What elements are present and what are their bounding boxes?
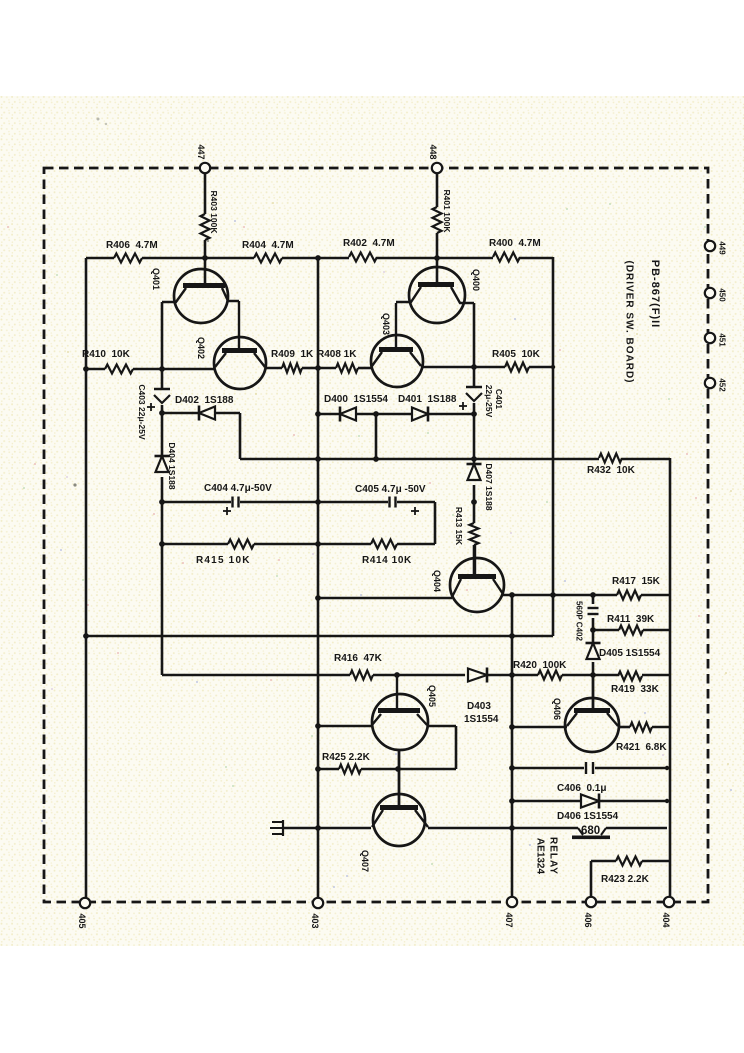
svg-text:R413 15K: R413 15K	[454, 507, 464, 546]
svg-text:1S1554: 1S1554	[464, 714, 499, 725]
svg-text:C401: C401	[494, 389, 504, 410]
resistor R401 100K	[433, 189, 453, 233]
svg-text:Q406: Q406	[552, 698, 562, 720]
svg-text:R421 6.8K: R421 6.8K	[616, 742, 667, 753]
terminal 406	[583, 897, 596, 928]
resistor R411	[607, 614, 655, 635]
wire R408 segment	[318, 367, 372, 370]
transistor Q407	[360, 750, 428, 872]
wire rail x512	[511, 595, 514, 897]
diode D400	[324, 394, 388, 422]
terminal 405	[77, 898, 90, 929]
wire stub x376	[375, 414, 378, 459]
terminal 447	[196, 144, 210, 173]
terminal 449	[705, 241, 727, 255]
wire cap row y502	[162, 502, 435, 544]
terminal 404	[661, 897, 674, 928]
svg-text:R400 4.7M: R400 4.7M	[489, 238, 541, 249]
svg-text:22μ-25V: 22μ-25V	[484, 385, 494, 418]
svg-text:R414 10K: R414 10K	[362, 555, 412, 566]
stray specks	[73, 118, 209, 487]
wire left rail	[85, 258, 88, 898]
resistor R414	[362, 540, 412, 567]
svg-text:Q402: Q402	[196, 337, 206, 359]
svg-text:C405 4.7μ -50V: C405 4.7μ -50V	[355, 484, 426, 495]
diode D404	[155, 442, 178, 490]
resistor R409	[271, 349, 314, 373]
transistor Q404	[432, 545, 504, 612]
svg-text:405: 405	[77, 913, 87, 928]
wire row y769	[318, 768, 456, 771]
junction dots row502	[159, 499, 321, 505]
wire Q404 base-left	[318, 597, 452, 600]
resistor R413	[454, 507, 479, 546]
junction dots row368	[83, 364, 555, 372]
wire row y828	[283, 827, 512, 830]
svg-text:Q405: Q405	[427, 685, 437, 707]
title PB-867	[649, 260, 661, 328]
resistor R406	[106, 240, 158, 263]
wire 447 feed	[204, 173, 207, 284]
svg-text:452: 452	[718, 378, 727, 392]
transistor Q406	[552, 675, 619, 752]
wire Q406 left	[512, 726, 567, 729]
wire x593 chain	[592, 595, 595, 708]
transistor Q403	[371, 303, 423, 387]
transistor Q402	[196, 301, 266, 389]
resistor R420	[513, 660, 567, 680]
svg-text:D401 1S188: D401 1S188	[398, 394, 457, 405]
capacitor C403	[137, 384, 170, 440]
svg-text:560P C402: 560P C402	[575, 601, 584, 641]
svg-text:R425 2.2K: R425 2.2K	[322, 752, 371, 763]
wire x474 chain	[473, 303, 476, 574]
svg-text:R409 1K: R409 1K	[271, 349, 314, 360]
svg-text:(DRIVER SW. BOARD): (DRIVER SW. BOARD)	[624, 261, 635, 384]
wire 448 feed	[436, 173, 439, 283]
junction dots y636	[83, 633, 515, 639]
svg-text:D404 1S188: D404 1S188	[167, 442, 177, 490]
wire diode row R	[318, 413, 474, 416]
wire row y459	[240, 458, 670, 461]
svg-text:R401 100K: R401 100K	[442, 189, 452, 233]
junction dots row544	[159, 541, 321, 547]
diode D405	[586, 643, 661, 659]
svg-text:R420 100K: R420 100K	[513, 660, 567, 671]
junction dot x593	[590, 627, 596, 678]
svg-text:D400 1S1554: D400 1S1554	[324, 394, 388, 405]
diode D406	[557, 794, 619, 823]
svg-text:RELAY: RELAY	[548, 837, 559, 875]
svg-text:449: 449	[718, 241, 727, 255]
svg-text:Q403: Q403	[381, 313, 391, 335]
junction x474 dots	[471, 411, 477, 505]
svg-text:R415 10K: R415 10K	[196, 555, 251, 566]
transistor Q405	[372, 675, 437, 750]
relay label	[535, 837, 559, 875]
transistor Q400	[396, 267, 481, 323]
junction dot q404	[315, 595, 321, 601]
terminal 450	[705, 288, 727, 302]
junction dots relay2	[509, 798, 669, 804]
svg-text:D405 1S1554: D405 1S1554	[599, 648, 661, 659]
wire long row y636	[86, 635, 553, 638]
wire Q404 emitter row	[503, 594, 670, 597]
diode D401	[398, 394, 457, 422]
svg-text:447: 447	[196, 144, 206, 159]
resistor R425	[322, 752, 371, 774]
input mark	[270, 820, 283, 836]
svg-text:406: 406	[583, 912, 593, 927]
junction dots relay1	[509, 765, 669, 771]
svg-text:R408 1K: R408 1K	[317, 349, 357, 360]
junction dot q406	[509, 724, 515, 730]
svg-text:R419 33K: R419 33K	[611, 684, 660, 695]
resistor R402	[343, 238, 395, 262]
wire row y368	[86, 368, 215, 371]
relay coil 680	[512, 825, 667, 839]
wire Q405 left	[318, 725, 372, 728]
resistor R416 47K	[334, 653, 383, 680]
diode D407	[467, 463, 495, 511]
wire Q406 right	[618, 726, 670, 729]
wire R423 row	[591, 861, 670, 897]
capacitor C406	[557, 762, 606, 794]
terminal 451	[705, 333, 727, 347]
svg-text:D403: D403	[467, 701, 491, 712]
wire row y630	[593, 629, 670, 632]
capacitor C404	[204, 483, 272, 515]
wire right rail x553	[552, 257, 555, 636]
diode D402	[175, 395, 234, 421]
svg-text:D407 1S188: D407 1S188	[484, 463, 494, 511]
wire row y675	[162, 674, 670, 677]
junction bus dots	[202, 255, 440, 261]
svg-text:407: 407	[504, 912, 514, 927]
svg-text:Q401: Q401	[151, 268, 161, 290]
junction dot rowL	[159, 410, 165, 416]
resistor R423	[601, 857, 650, 886]
wire diode row L	[162, 413, 240, 459]
resistor R415	[196, 540, 254, 567]
wire right rail x670	[669, 458, 672, 897]
resistor R405	[492, 349, 541, 372]
svg-text:AE1324: AE1324	[535, 838, 546, 875]
resistor R410	[82, 349, 133, 374]
wire Q405 bottom	[398, 750, 401, 805]
svg-text:Q404: Q404	[432, 570, 442, 592]
svg-text:R411 39K: R411 39K	[607, 614, 655, 625]
resistor R403 100K	[201, 190, 220, 240]
junction dots y769	[315, 766, 401, 772]
svg-text:R416 47K: R416 47K	[334, 653, 383, 664]
svg-text:C403 22μ-25V: C403 22μ-25V	[137, 384, 147, 440]
junction dot rowR	[315, 411, 379, 417]
wire x162 chain	[161, 302, 164, 675]
svg-text:680: 680	[581, 825, 600, 837]
svg-text:R402 4.7M: R402 4.7M	[343, 238, 395, 249]
terminal 452	[705, 378, 727, 392]
wire row y801 relay	[512, 800, 667, 803]
resistor R404	[242, 240, 294, 263]
svg-text:403: 403	[310, 913, 320, 928]
wire row y544	[162, 543, 435, 546]
scan noise dots	[7, 160, 732, 904]
wire Q403-R405	[421, 366, 553, 369]
junction dot q405	[315, 723, 321, 729]
svg-text:Q400: Q400	[471, 269, 481, 291]
svg-text:D406 1S1554: D406 1S1554	[557, 811, 619, 822]
svg-text:C406 0.1μ: C406 0.1μ	[557, 783, 606, 794]
svg-text:R423 2.2K: R423 2.2K	[601, 874, 650, 885]
terminal 407	[504, 897, 517, 928]
svg-text:R403 100K: R403 100K	[209, 190, 219, 234]
svg-text:R405 10K: R405 10K	[492, 349, 541, 360]
wire Q405 right	[427, 726, 456, 769]
resistor R419	[611, 672, 660, 696]
svg-text:R404 4.7M: R404 4.7M	[242, 240, 294, 251]
svg-text:404: 404	[661, 912, 671, 927]
svg-text:Q407: Q407	[360, 850, 370, 872]
dashed board outline border	[44, 168, 708, 902]
resistor R421	[616, 723, 667, 754]
svg-text:D402 1S188: D402 1S188	[175, 395, 234, 406]
svg-text:451: 451	[718, 333, 727, 347]
capacitor C402	[575, 601, 599, 641]
svg-text:R417 15K: R417 15K	[612, 576, 661, 587]
wire row y768 relay	[512, 767, 667, 770]
transistor Q401	[151, 268, 239, 323]
resistor R417	[612, 576, 661, 600]
wire rail x318	[317, 258, 320, 898]
svg-text:450: 450	[718, 288, 727, 302]
capacitor C401	[459, 385, 504, 418]
resistor R408	[317, 349, 358, 373]
junction dots y675	[394, 672, 515, 678]
terminal 448	[428, 144, 442, 173]
svg-text:R410 10K: R410 10K	[82, 349, 131, 360]
wire Q402-R409	[265, 367, 318, 370]
svg-text:PB-867(F)II: PB-867(F)II	[649, 260, 661, 328]
junction dots y828	[315, 825, 515, 831]
svg-text:448: 448	[428, 144, 438, 159]
junction dots row595	[509, 592, 596, 598]
subtitle driver board	[624, 261, 635, 384]
resistor R432	[587, 454, 636, 477]
diode D403	[464, 668, 499, 726]
wire top bus	[86, 257, 553, 260]
svg-text:R406 4.7M: R406 4.7M	[106, 240, 158, 251]
resistor R400	[489, 238, 541, 262]
capacitor C405	[355, 484, 426, 515]
junction dots row459	[315, 456, 379, 462]
svg-text:C404 4.7μ-50V: C404 4.7μ-50V	[204, 483, 272, 494]
svg-text:R432 10K: R432 10K	[587, 465, 636, 476]
terminal 403	[310, 898, 323, 929]
